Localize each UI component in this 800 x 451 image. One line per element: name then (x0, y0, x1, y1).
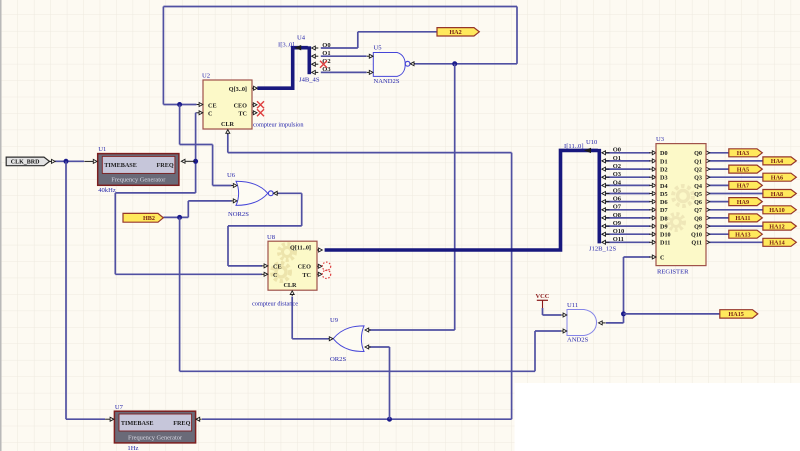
svg-text:HA9: HA9 (737, 199, 749, 206)
wire CE branch down to NOR (212, 145, 214, 186)
svg-text:Q6: Q6 (694, 199, 702, 206)
pin U10 O5 (602, 192, 606, 196)
pin U6 out (274, 191, 278, 195)
port HA2 (437, 28, 479, 36)
pin U3 D10 (652, 232, 656, 236)
svg-text:compteur impulsion: compteur impulsion (253, 122, 304, 129)
pin U3 Q2 (706, 167, 710, 171)
svg-text:Q4: Q4 (694, 183, 702, 190)
pin U5 in1 (369, 54, 373, 58)
wire U2 CLR stub (227, 134, 229, 153)
wire U4 O0 (321, 47, 358, 49)
wire U11 AND output (606, 322, 624, 324)
svg-text:O6: O6 (613, 196, 622, 203)
wire HB2 up to U11 (534, 331, 536, 371)
wire U10 O9 to U3 D9 (602, 225, 650, 227)
svg-text:D11: D11 (660, 240, 670, 247)
svg-text:TC: TC (238, 111, 247, 118)
svg-text:I[11..0]: I[11..0] (564, 143, 584, 150)
pin U6 in1 (233, 184, 237, 188)
svg-text:Q[3..0]: Q[3..0] (229, 86, 247, 93)
svg-text:U10: U10 (586, 139, 598, 146)
wire U10 O5 to U3 D5 (602, 193, 650, 195)
svg-text:U5: U5 (374, 45, 383, 52)
pin U9 out (329, 337, 333, 341)
svg-text:Frequency Generator: Frequency Generator (111, 177, 166, 184)
port HA13 (729, 230, 763, 238)
pin U8 CEO (318, 264, 322, 268)
wire to NOR U6 input 1 (213, 185, 232, 187)
svg-text:D5: D5 (660, 191, 668, 198)
pin U3 D4 (652, 183, 656, 187)
frequency generator U7 (114, 404, 195, 451)
no-ERC dashed circle on U8 CEO (322, 262, 330, 270)
pin U11 in1 (563, 313, 567, 317)
pin U4 O2 (312, 62, 316, 66)
wire to HA2 port (358, 31, 437, 33)
wire OR U9 output (292, 338, 329, 340)
OR gate U9 (mirrored) (330, 317, 364, 363)
wire 40kHz horizontal (115, 192, 195, 194)
pin U7 FREQ output (196, 417, 200, 421)
svg-text:O4: O4 (613, 179, 622, 186)
pin U3 D9 (652, 224, 656, 228)
svg-text:U11: U11 (567, 302, 578, 309)
svg-text:Q7: Q7 (694, 207, 702, 214)
no-ERC X on U2 CEO (257, 101, 264, 108)
port HA8 (763, 190, 796, 198)
port HB2 (123, 213, 163, 222)
pin U10 O1 (602, 159, 606, 163)
svg-text:HB2: HB2 (143, 215, 155, 222)
pin U4 O0 (312, 46, 316, 50)
pin U11 out (599, 321, 603, 325)
wire U3 Q0 to HA3 (706, 152, 729, 154)
port HA14 (763, 238, 796, 246)
wire U3 Q9 to HA12 (706, 225, 763, 227)
svg-text:HA2: HA2 (449, 29, 461, 36)
wire U10 O1 to U3 D1 (602, 160, 650, 162)
wire top feedback right vertical (516, 7, 518, 64)
wire U10 O0 to U3 D0 (602, 152, 650, 154)
svg-text:U6: U6 (227, 172, 236, 179)
svg-text:Q3: Q3 (694, 175, 702, 182)
pin U9 in2 (365, 345, 369, 349)
svg-text:D3: D3 (660, 175, 668, 182)
wire U3 Q2 to HA5 (706, 168, 729, 170)
left window edge (0, 0, 2, 451)
svg-text:HA4: HA4 (771, 158, 783, 165)
pin U5 in2 (369, 70, 373, 74)
svg-text:D1: D1 (660, 158, 668, 165)
pin U3 D2 (652, 167, 656, 171)
pin U3 D5 (652, 192, 656, 196)
bus splitter U4 bar (307, 46, 311, 74)
pin U8 CE (264, 264, 268, 268)
wire CE branch down (179, 105, 181, 145)
pin U3 Q1 (706, 159, 710, 163)
wire HB2 down (179, 217, 181, 371)
pin U10 O9 (602, 224, 606, 228)
pin U3 Q5 (706, 192, 710, 196)
pin U10 O4 (602, 183, 606, 187)
pin U2 CE (199, 103, 203, 107)
svg-text:TC: TC (302, 272, 311, 279)
svg-text:HA14: HA14 (769, 240, 784, 247)
port HA9 (729, 198, 763, 206)
svg-text:CE: CE (208, 103, 217, 110)
pin U10 O11 (602, 240, 606, 244)
wire NOR out down 2 (227, 226, 229, 266)
svg-text:O3: O3 (613, 171, 622, 178)
svg-text:D10: D10 (660, 232, 671, 239)
svg-text:1Hz: 1Hz (127, 445, 138, 451)
svg-text:CLR: CLR (221, 121, 235, 128)
svg-text:HA7: HA7 (737, 183, 749, 190)
wire U3 Q4 to HA7 (706, 184, 729, 186)
svg-text:D8: D8 (660, 215, 668, 222)
pin U3 Q0 (706, 151, 710, 155)
svg-text:O11: O11 (613, 236, 624, 243)
pin U3 D3 (652, 175, 656, 179)
svg-text:O0: O0 (613, 147, 621, 154)
svg-text:U9: U9 (330, 317, 339, 324)
register U3 (656, 144, 706, 266)
AND gate U11 (567, 302, 597, 344)
svg-text:O0: O0 (322, 42, 330, 49)
wire top feedback horizontal (163, 6, 517, 8)
svg-text:C: C (208, 111, 212, 118)
pin U5 out (410, 62, 414, 66)
svg-text:Q2: Q2 (694, 167, 702, 174)
pin U10 O8 (602, 216, 606, 220)
svg-text:D7: D7 (660, 207, 668, 214)
pin U9 in1 (365, 328, 369, 332)
svg-text:HA6: HA6 (771, 175, 783, 182)
no-ERC X on U4 O2 (320, 61, 327, 68)
pin U2 CLR (226, 130, 230, 134)
svg-text:O9: O9 (613, 220, 622, 227)
svg-text:HA8: HA8 (771, 191, 783, 198)
wire top feedback left vertical (162, 7, 164, 105)
svg-text:O8: O8 (613, 212, 622, 219)
wire U3 Q5 to HA8 (706, 193, 763, 195)
wire U3 Q1 to HA4 (706, 160, 763, 162)
junction HA15 (621, 311, 626, 316)
svg-text:U3: U3 (656, 136, 665, 143)
wire CLK_BRD down to U7 (65, 161, 67, 419)
frequency generator U1 (98, 146, 179, 194)
wire U2 CLR horizontal (228, 152, 512, 154)
svg-text:Frequency Generator: Frequency Generator (128, 434, 183, 441)
svg-text:CLK_BRD: CLK_BRD (11, 160, 40, 166)
svg-text:NOR2S: NOR2S (228, 211, 249, 218)
svg-text:Q5: Q5 (694, 191, 702, 198)
svg-text:CEO: CEO (298, 264, 312, 271)
svg-text:REGISTER: REGISTER (657, 269, 689, 276)
svg-text:HA12: HA12 (769, 223, 784, 230)
svg-text:compteur distance: compteur distance (252, 301, 298, 308)
svg-text:Q10: Q10 (691, 232, 702, 239)
wire 40kHz down (114, 193, 116, 274)
pin U10 O10 (602, 232, 606, 236)
bus U8 Q[11..0] to U10 (325, 150, 598, 250)
svg-text:HA11: HA11 (735, 215, 750, 222)
port HA7 (729, 181, 763, 189)
port HA10 (763, 206, 796, 214)
svg-text:U8: U8 (267, 234, 276, 241)
pin U3 D6 (652, 200, 656, 204)
pin U3 Q9 (706, 224, 710, 228)
svg-text:U4: U4 (297, 35, 306, 42)
pin U3 D11 (652, 240, 656, 244)
pin U1 FREQ output (181, 159, 185, 163)
svg-text:O2: O2 (613, 163, 621, 170)
wire to U2 CE (163, 104, 196, 106)
wire to U7 TIMEBASE input (66, 418, 105, 420)
svg-text:TIMEBASE: TIMEBASE (104, 162, 137, 169)
svg-text:D4: D4 (660, 183, 668, 190)
svg-text:Q1: Q1 (694, 158, 702, 165)
wire O0 up (357, 32, 359, 48)
svg-text:O1: O1 (322, 50, 330, 57)
svg-text:HA15: HA15 (728, 311, 743, 318)
pin U3 Q11 (706, 240, 710, 244)
svg-text:CEO: CEO (234, 103, 248, 110)
counter U8 (compteur distance) (267, 234, 317, 290)
bus U2 Q[3..0] to U4 (257, 48, 308, 88)
wire U3 Q10 to HA13 (706, 233, 729, 235)
pin U4 O1 (312, 54, 316, 58)
svg-text:D9: D9 (660, 224, 668, 231)
svg-text:CE: CE (273, 264, 282, 271)
svg-text:40kHz: 40kHz (98, 187, 116, 194)
pin U3 C (652, 255, 656, 259)
NAND gate U5 (373, 45, 410, 86)
wire HB2 up (187, 201, 189, 218)
port HA6 (763, 173, 796, 181)
svg-text:FREQ: FREQ (173, 420, 190, 427)
wire U2 C stub (195, 112, 198, 114)
wire U10 O3 to U3 D3 (602, 176, 650, 178)
wire NAND U5 output (414, 63, 517, 65)
pin U8 C (264, 272, 268, 276)
svg-text:CLR: CLR (283, 282, 297, 289)
pin U8 Q bus (319, 248, 323, 252)
pin U7 TIMEBASE input (110, 417, 114, 421)
svg-text:AND2S: AND2S (567, 337, 589, 344)
wire 40kHz to U8 C (115, 273, 262, 275)
svg-text:Q9: Q9 (694, 224, 702, 231)
bus splitter U10 bar (597, 149, 601, 244)
wire CE branch horizontal (180, 144, 213, 146)
wire U3 Q6 to HA9 (706, 201, 729, 203)
wire U3 Q8 to HA11 (706, 217, 729, 219)
pin U3 D1 (652, 159, 656, 163)
pin U10 O0 (602, 151, 606, 155)
port CLK_BRD (6, 157, 49, 166)
pin U3 Q8 (706, 216, 710, 220)
counter U2 (compteur impulsion) (202, 73, 252, 130)
wire U3 Q11 to HA14 (706, 241, 763, 243)
pin U10 O6 (602, 200, 606, 204)
pin U8 CLR (290, 291, 294, 295)
wire up to U3 C (623, 257, 625, 323)
no-ERC X on U2 TC (257, 109, 264, 116)
svg-text:HA13: HA13 (735, 232, 750, 239)
wire U3 Q3 to HA6 (706, 176, 763, 178)
pin U1 TIMEBASE input (93, 159, 97, 163)
bus entry arrow I[3..0] (294, 45, 301, 50)
svg-text:O1: O1 (613, 155, 621, 162)
port HA15 (720, 310, 758, 318)
pin U2 Q bus (254, 86, 258, 90)
wire to NOR U6 input 2 (188, 200, 231, 202)
pin U3 D0 (652, 151, 656, 155)
svg-text:Q0: Q0 (694, 150, 702, 157)
junction U1 FREQ (193, 159, 198, 164)
pin U10 O7 (602, 208, 606, 212)
off-sheet white area bottom right (515, 383, 800, 451)
svg-text:U7: U7 (115, 404, 124, 411)
junction U2 CE branch (177, 102, 182, 107)
wire to U8 CLR (291, 297, 293, 339)
svg-text:C: C (660, 254, 664, 261)
junction NAND output / U9 branch (452, 61, 457, 66)
wire NOR out horizontal (228, 225, 302, 227)
wire to HA15 port (624, 313, 720, 315)
wire to U9 input 2 (367, 346, 389, 348)
svg-text:O10: O10 (613, 228, 625, 235)
wire U10 O6 to U3 D6 (602, 201, 650, 203)
junction HB2 (177, 215, 182, 220)
pin U3 Q7 (706, 208, 710, 212)
svg-text:NAND2S: NAND2S (374, 78, 400, 85)
wire VCC down (542, 308, 544, 315)
wire U10 O8 to U3 D8 (602, 217, 650, 219)
pin U4 O3 (312, 70, 316, 74)
pin U2 TC (253, 111, 257, 115)
wire 1Hz up to U2 CLR (511, 153, 513, 420)
wire 40kHz vertical (195, 113, 197, 193)
wire U3 Q7 to HA10 (706, 209, 763, 211)
pin CLK_BRD (52, 159, 56, 163)
pin U10 O3 (602, 175, 606, 179)
svg-text:OR2S: OR2S (330, 356, 346, 363)
pin U11 in2 (563, 329, 567, 333)
port HA11 (729, 214, 763, 222)
svg-text:FREQ: FREQ (156, 162, 173, 169)
wire U10 O10 to U3 D10 (602, 233, 650, 235)
wire CLK_BRD to U1 (55, 160, 84, 162)
wire U10 O11 to U3 D11 (602, 241, 650, 243)
wire NAND out down to OR U9 input (454, 64, 456, 330)
wire U10 O2 to U3 D2 (602, 168, 650, 170)
svg-text:J12B_12S: J12B_12S (589, 246, 616, 253)
svg-text:J4B_4S: J4B_4S (299, 77, 320, 84)
svg-text:TIMEBASE: TIMEBASE (121, 420, 154, 427)
svg-text:HA5: HA5 (737, 166, 749, 173)
svg-text:HA3: HA3 (737, 150, 749, 157)
junction 1Hz / U9 branch (387, 417, 392, 422)
svg-text:D2: D2 (660, 167, 668, 174)
pin U3 Q6 (706, 200, 710, 204)
wire to U8 CE (228, 265, 262, 267)
wire to U11 input 1 (543, 314, 562, 316)
pin U3 Q10 (706, 232, 710, 236)
port HA12 (763, 222, 796, 230)
port HA4 (763, 157, 796, 165)
wire NOR U6 output (278, 192, 302, 194)
pin U3 Q4 (706, 183, 710, 187)
pin U6 in2 (233, 199, 237, 203)
wire HB2 bottom horizontal (180, 370, 535, 372)
svg-text:C: C (273, 272, 277, 279)
wire U4 O1 to NAND in1 (321, 55, 367, 57)
wire 1Hz up to U9 input 2 (389, 347, 391, 419)
wire HB2 (163, 216, 188, 218)
svg-text:VCC: VCC (536, 293, 550, 300)
wire to U9 input 1 (367, 329, 454, 331)
power VCC (536, 293, 550, 308)
port HA5 (729, 165, 763, 173)
pin U2 CEO (253, 103, 257, 107)
svg-text:HA10: HA10 (769, 207, 784, 214)
bus entry arrow I[11..0] (584, 148, 591, 153)
no-ERC dashed circle on U8 TC (322, 270, 330, 278)
wire 1Hz from U7 FREQ (202, 418, 512, 420)
wire U10 O4 to U3 D4 (602, 184, 650, 186)
pin U3 D8 (652, 216, 656, 220)
wire to U11 input 2 (535, 330, 561, 332)
pin U10 O2 (602, 167, 606, 171)
svg-text:Q11: Q11 (691, 240, 702, 247)
svg-text:Q8: Q8 (694, 215, 702, 222)
svg-text:Q[11..0]: Q[11..0] (290, 245, 311, 252)
pin U8 TC (318, 272, 322, 276)
svg-text:I[3..0]: I[3..0] (278, 42, 294, 49)
junction CLK_BRD (64, 159, 69, 164)
svg-text:U1: U1 (98, 146, 106, 153)
pin U3 Q3 (706, 175, 710, 179)
svg-text:D0: D0 (660, 150, 668, 157)
svg-text:O7: O7 (613, 204, 622, 211)
wire NOR out down (301, 193, 303, 226)
NOR gate U6 (227, 172, 273, 218)
svg-text:D6: D6 (660, 199, 668, 206)
svg-text:U2: U2 (202, 73, 210, 80)
wire U4 O3 to NAND in2 (321, 71, 367, 73)
port HA3 (729, 149, 763, 157)
pin U3 D7 (652, 208, 656, 212)
pin U2 C (199, 111, 203, 115)
wire to U3 C pin (624, 256, 651, 258)
wire U10 O7 to U3 D7 (602, 209, 650, 211)
svg-text:O5: O5 (613, 187, 622, 194)
